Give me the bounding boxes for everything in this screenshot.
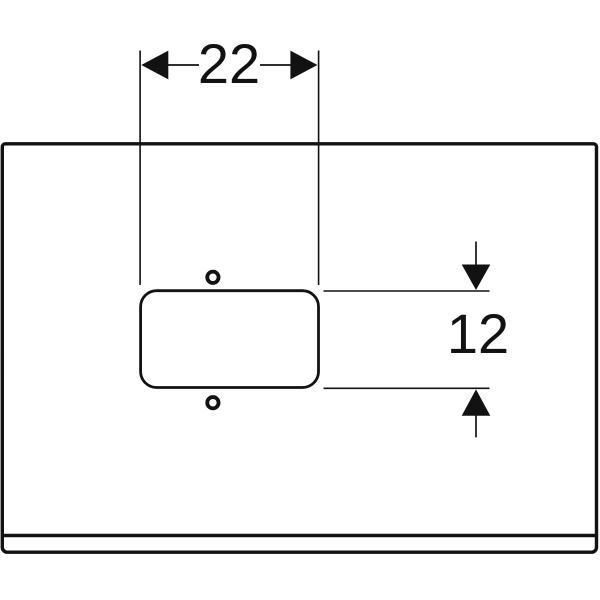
dim line 22 left segment bbox=[160, 64, 199, 66]
arrow up (dim 12) bbox=[462, 389, 491, 415]
drill hole top bbox=[207, 272, 218, 283]
extension line bottom (dim 12) bbox=[324, 387, 490, 389]
extension line left (dim 22) bbox=[139, 51, 141, 286]
dim line 12 lower segment bbox=[475, 414, 477, 437]
extension line top (dim 12) bbox=[324, 290, 490, 292]
dim line 12 upper segment bbox=[475, 242, 477, 267]
arrow right (dim 22) bbox=[290, 51, 317, 80]
front edge line bbox=[3, 534, 597, 537]
arrow down (dim 12) bbox=[462, 265, 491, 291]
drill hole bottom bbox=[207, 397, 218, 408]
svg-text:12: 12 bbox=[447, 302, 509, 365]
svg-text:22: 22 bbox=[198, 32, 260, 95]
extension line right (dim 22) bbox=[318, 51, 320, 286]
arrow left (dim 22) bbox=[141, 51, 168, 80]
panel outline bbox=[2, 144, 596, 552]
dim line 22 right segment bbox=[260, 64, 298, 66]
cutout bbox=[141, 291, 319, 388]
